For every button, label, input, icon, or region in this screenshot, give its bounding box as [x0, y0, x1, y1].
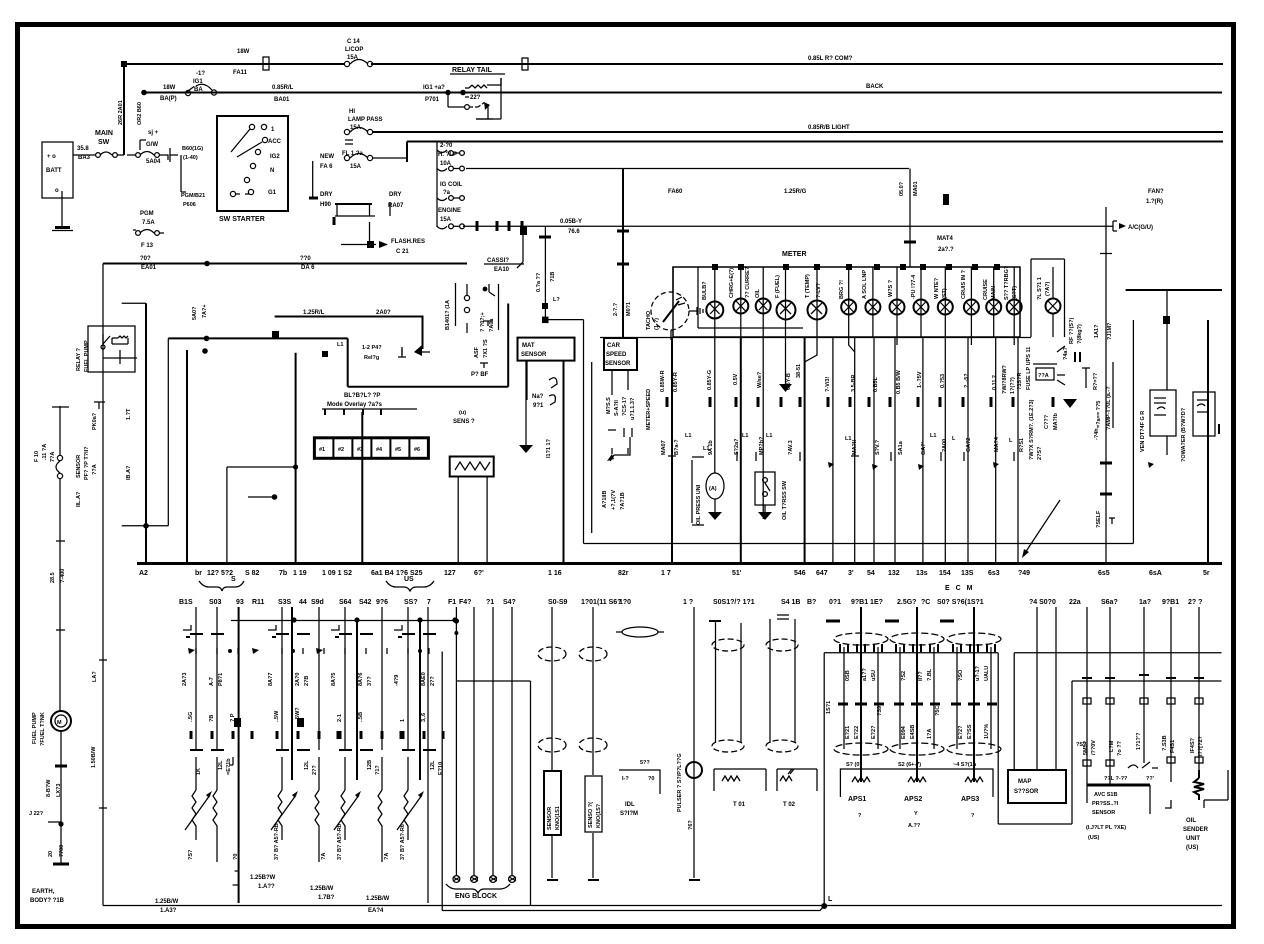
knock sensor 1 — [538, 607, 566, 880]
svg-text:CRUIS IN ?: CRUIS IN ? — [961, 269, 967, 299]
MAF area component — [480, 284, 499, 332]
svg-text:OR2 B60: OR2 B60 — [137, 102, 143, 125]
wire to starter box — [181, 155, 186, 192]
svg-text:M0?1: M0?1 — [626, 302, 632, 316]
svg-text:CA?2: CA?2 — [966, 438, 972, 452]
svg-text:FUSE LP UPS 11: FUSE LP UPS 11 — [1026, 347, 1032, 390]
svg-text:5r: 5r — [1203, 570, 1210, 577]
eng block ground wires — [474, 607, 512, 875]
svg-text:(ST): (ST) — [942, 288, 948, 299]
fusible link main sw — [73, 154, 95, 156]
svg-text:CRUISE: CRUISE — [983, 279, 989, 300]
injector resistor T02 — [766, 615, 817, 808]
svg-text:BA: BA — [194, 87, 203, 93]
svg-text:W?S ?: W?S ? — [888, 279, 894, 297]
svg-text:Mode Overlay ?a?s: Mode Overlay ?a?s — [327, 402, 383, 408]
ignition switch SW STARTER box — [217, 116, 288, 223]
svg-text:?..-5?: ?..-5? — [964, 373, 970, 388]
svg-text:LA?: LA? — [92, 671, 98, 682]
fuse HI LAMP PASS — [342, 109, 407, 170]
svg-text:N: N — [270, 168, 274, 174]
svg-text:Rel?g: Rel?g — [364, 355, 379, 361]
svg-text:132: 132 — [888, 570, 900, 577]
svg-text:ASF: ASF — [474, 346, 480, 358]
wire: line EA01 — [103, 263, 467, 265]
svg-text:o: o — [55, 188, 59, 194]
svg-text:3??: 3?? — [367, 676, 373, 686]
svg-text:SENS ?: SENS ? — [453, 419, 475, 425]
svg-text:?C: ?C — [921, 599, 930, 606]
svg-text:E?21: E?21 — [845, 726, 851, 739]
svg-text:1: 1 — [400, 719, 406, 722]
svg-text:PGM/B21: PGM/B21 — [181, 193, 205, 199]
svg-text:8-B?W: 8-B?W — [46, 779, 52, 797]
svg-text:BRG ?!: BRG ?! — [839, 280, 845, 299]
svg-text:ACC: ACC — [268, 139, 282, 145]
svg-text:1.25R/G: 1.25R/G — [784, 189, 807, 195]
svg-text:12B: 12B — [367, 760, 373, 770]
svg-text:?0?: ?0? — [140, 256, 151, 262]
svg-text:8A?5: 8A?5 — [331, 673, 337, 686]
svg-text:R11: R11 — [252, 599, 265, 606]
svg-text:Y: Y — [914, 811, 918, 817]
svg-text:P701: P701 — [425, 97, 440, 103]
svg-text:44: 44 — [299, 599, 307, 606]
press sensor box — [1086, 785, 1150, 841]
wire pin 647 — [832, 337, 834, 563]
svg-text:BULB?: BULB? — [702, 281, 708, 300]
svg-text:8A?6: 8A?6 — [358, 673, 364, 686]
svg-text:3.5-BR: 3.5-BR — [851, 375, 857, 392]
svg-text:3,.6: 3,.6 — [421, 713, 427, 722]
svg-text:7.5A: 7.5A — [142, 220, 155, 226]
svg-text:?6?: ?6? — [688, 820, 694, 830]
indicator lamps row — [706, 267, 1021, 337]
svg-text:BL?B?L? ?P: BL?B?L? ?P — [344, 393, 380, 399]
svg-text:SPEED: SPEED — [606, 352, 627, 358]
svg-text:18W: 18W — [163, 85, 176, 91]
svg-text:9?6: 9?6 — [376, 599, 388, 606]
svg-text:C???: C??? — [1044, 414, 1050, 429]
lamp PW — [920, 267, 922, 337]
svg-text:C 21: C 21 — [396, 249, 409, 255]
black mark — [943, 194, 949, 205]
svg-text:0.85Y-G: 0.85Y-G — [707, 370, 713, 390]
wire pin 17 — [671, 337, 673, 563]
lamp WASH — [896, 267, 898, 337]
svg-text:(US): (US) — [1088, 835, 1099, 841]
svg-text:UALU: UALU — [984, 666, 990, 681]
fuse on fuel pump wire — [57, 455, 62, 460]
svg-text:7A?+: 7A?+ — [202, 304, 208, 318]
svg-text:1U?%: 1U?% — [984, 724, 990, 739]
svg-text:?0: ?0 — [233, 854, 239, 860]
svg-text:F4?: F4? — [459, 599, 471, 606]
svg-text:0.?53: 0.?53 — [940, 374, 946, 388]
svg-text:T 01: T 01 — [733, 802, 746, 808]
wire buzzer riser — [507, 304, 509, 387]
svg-text:S0-S9: S0-S9 — [548, 599, 568, 606]
wire pin 546 — [804, 337, 806, 563]
wire pin 154 — [944, 337, 946, 563]
svg-text:0.85L R? COM?: 0.85L R? COM? — [808, 56, 853, 62]
svg-text:2a?.?: 2a?.? — [938, 247, 954, 253]
junction node top — [121, 61, 127, 67]
wire oil temp — [762, 337, 764, 519]
svg-text:2-?.?: 2-?.? — [613, 302, 619, 316]
svg-text:L1: L1 — [766, 433, 772, 439]
svg-text:E C M: E C M — [945, 585, 974, 592]
connector tick row y402 — [667, 397, 1053, 407]
svg-text:J 22?: J 22? — [29, 811, 44, 817]
fuel pump wire top — [59, 406, 61, 455]
battery BATT — [42, 142, 73, 198]
wire pin b7 vertical — [186, 350, 188, 563]
svg-text:M?S.S: M?S.S — [606, 397, 612, 414]
svg-text:EA?4: EA?4 — [368, 908, 384, 914]
svg-text:?CS-1?: ?CS-1? — [622, 396, 628, 416]
gauge FUEL — [785, 267, 787, 337]
svg-text:A?1llB: A?1llB — [602, 491, 608, 508]
wire: line 3 lights — [372, 131, 1223, 133]
wire: feed down to meter — [909, 169, 911, 268]
wire from 583 corner — [583, 320, 585, 544]
svg-text:??L ?-??: ??L ?-?? — [1104, 776, 1128, 782]
svg-text:RELAY TAIL: RELAY TAIL — [452, 67, 493, 74]
svg-text:#4: #4 — [376, 447, 383, 453]
svg-text:-?4h: -?4h — [1094, 428, 1100, 440]
svg-text:=?a== ??5: =?a== ??5 — [1096, 401, 1102, 428]
svg-text:MA?4: MA?4 — [994, 436, 1000, 452]
svg-text:15A: 15A — [440, 217, 452, 223]
svg-text:TACHO: TACHO — [646, 310, 652, 330]
wire with ground — [525, 361, 527, 445]
svg-text:6?': 6?' — [474, 570, 484, 577]
svg-text:B60(1G): B60(1G) — [182, 146, 203, 152]
small connector tick row y456 — [668, 452, 1014, 461]
svg-text:127: 127 — [444, 570, 456, 577]
svg-text:KNO(1S1: KNO(1S1 — [555, 806, 561, 830]
svg-text:B1401? (1A: B1401? (1A — [445, 300, 451, 330]
svg-text:S4 1B: S4 1B — [781, 599, 800, 606]
svg-text:2??: 2?? — [430, 676, 436, 686]
svg-text:0.B5L: 0.B5L — [873, 376, 879, 392]
svg-text:?W/?8RW?: ?W/?8RW? — [1002, 364, 1008, 394]
junction earth stub — [58, 821, 63, 826]
svg-text:MA07: MA07 — [661, 440, 667, 455]
svg-text:APS2: APS2 — [904, 796, 922, 803]
wire: line 6 0.05B-Y — [463, 225, 1113, 227]
fuse C-14 on line 1 — [344, 39, 372, 67]
svg-text:METER+SPEED: METER+SPEED — [646, 389, 652, 430]
heater box — [1181, 392, 1219, 462]
purge solenoid — [445, 283, 470, 333]
svg-text:BATT: BATT — [46, 168, 62, 174]
connector A/C at end of line6 — [1113, 221, 1117, 231]
svg-text:0.85R/L: 0.85R/L — [272, 85, 294, 91]
svg-text:12L: 12L — [304, 760, 310, 770]
feeder line over coils — [231, 620, 456, 622]
svg-text:FLASH.RES: FLASH.RES — [391, 239, 425, 245]
svg-text:1a?: 1a? — [1139, 599, 1151, 606]
IDL switch — [619, 760, 660, 817]
wire x623 down to car speed — [622, 169, 624, 339]
svg-text:S: S — [231, 576, 236, 583]
svg-text:S2 (6+-7): S2 (6+-7) — [898, 762, 921, 768]
svg-text:T (TEMP): T (TEMP) — [805, 274, 811, 298]
buzzer — [450, 410, 494, 563]
gauge TEMP — [816, 267, 818, 337]
svg-text:?OWA?ER (B?W?D?: ?OWA?ER (B?W?D? — [1181, 407, 1187, 462]
svg-text:?W?X S?RM?. (1E.2?3): ?W?X S?RM?. (1E.2?3) — [1029, 399, 1035, 460]
svg-text:?1?: ?1? — [375, 765, 381, 775]
svg-text:12L: 12L — [430, 760, 436, 770]
svg-text:Na?: Na? — [532, 394, 544, 400]
wire mode drop — [167, 338, 169, 525]
tick marks on fuel wire — [56, 541, 65, 630]
svg-text:7b: 7b — [279, 570, 287, 577]
svg-text:6a1 B4: 6a1 B4 — [371, 570, 394, 577]
A boxes row — [314, 438, 428, 459]
svg-text:MAP: MAP — [1018, 779, 1031, 785]
svg-text:1.A3?: 1.A3? — [160, 908, 177, 914]
svg-text:12L: 12L — [218, 760, 224, 770]
svg-text:PF? ?P T?ll?: PF? ?P T?ll? — [84, 446, 90, 480]
svg-text:BA3: BA3 — [78, 155, 91, 161]
svg-text:S03: S03 — [209, 599, 222, 606]
svg-text:MA?ll: MA?ll — [852, 440, 858, 455]
lamp CRUISE MAIN — [993, 267, 995, 337]
svg-text:?.S3B: ?.S3B — [1162, 735, 1168, 751]
wire: top feed line 1 — [124, 63, 1223, 65]
svg-text:1 19: 1 19 — [293, 570, 307, 577]
svg-text:154: 154 — [939, 570, 951, 577]
svg-text:FAN?: FAN? — [1148, 189, 1164, 195]
svg-text:OIL: OIL — [1186, 818, 1196, 824]
svg-text:54: 54 — [867, 570, 875, 577]
svg-text:0.05B-Y: 0.05B-Y — [560, 219, 582, 225]
svg-text:L1: L1 — [685, 433, 691, 439]
svg-text:0.5V: 0.5V — [733, 373, 739, 385]
svg-text:ENGINE: ENGINE — [438, 208, 461, 214]
svg-text:S?I?M: S?I?M — [620, 811, 638, 817]
svg-text:HI: HI — [349, 109, 355, 115]
svg-text:SENSOR: SENSOR — [76, 455, 82, 478]
svg-text:?4a?: ?4a? — [1063, 347, 1069, 360]
svg-text:FA60: FA60 — [668, 189, 683, 195]
svg-text:2? ?: 2? ? — [1188, 599, 1202, 606]
svg-text:F1: F1 — [448, 599, 456, 606]
ECM pin labels row2 — [179, 599, 1202, 606]
svg-text:6sA: 6sA — [1149, 570, 1162, 577]
fusebox stack HEAD/IGCOIL/ENGINE — [437, 142, 464, 229]
bold tick on fuel wire — [55, 765, 67, 768]
svg-text:?S?: ?S? — [1076, 742, 1087, 748]
svg-text:?S2: ?S2 — [901, 671, 907, 681]
side box OIL SHIFT lamp — [1031, 259, 1083, 344]
svg-text:0SB: 0SB — [845, 670, 851, 681]
svg-text:2.5G?: 2.5G? — [897, 599, 916, 606]
right wires from meter area down — [1132, 320, 1134, 544]
svg-text:0.85W-R: 0.85W-R — [660, 370, 666, 392]
svg-text:1?0: 1?0 — [619, 599, 631, 606]
svg-text:S-A?ll: S-A?ll — [614, 400, 620, 416]
svg-text:?J1M?: ?J1M? — [1107, 322, 1113, 340]
svg-text:6s3: 6s3 — [988, 570, 1000, 577]
svg-text:CHRG+E(?): CHRG+E(?) — [729, 268, 735, 298]
svg-text:?.BL: ?.BL — [927, 668, 933, 681]
meter box — [673, 267, 1020, 337]
svg-text:C 14: C 14 — [347, 39, 360, 45]
svg-text:BODY? ?1B: BODY? ?1B — [30, 898, 65, 904]
svg-text:2?B: 2?B — [304, 676, 310, 686]
svg-text:SENDER: SENDER — [1183, 827, 1209, 833]
svg-text:A-7: A-7 — [209, 677, 215, 686]
svg-text:S?? T?RBG?: S?? T?RBG? — [1004, 265, 1010, 300]
wire label band upper — [660, 364, 1023, 394]
svg-text:S??SOR: S??SOR — [1014, 789, 1039, 795]
svg-text:E?2?: E?2? — [871, 725, 877, 739]
svg-text:(US): (US) — [1186, 845, 1198, 851]
lamp OIL — [762, 267, 764, 337]
svg-text:?(8kg?): ?(8kg?) — [1077, 324, 1083, 344]
svg-text:F (FUEL): F (FUEL) — [775, 275, 781, 298]
svg-text:8A?7: 8A?7 — [268, 673, 274, 686]
wire 563 MAT right — [563, 360, 565, 563]
svg-text:S9d: S9d — [311, 599, 324, 606]
top hooks — [183, 625, 402, 630]
svg-text:LX?3: LX?3 — [56, 784, 62, 797]
svg-text:?4 S0?0: ?4 S0?0 — [1029, 599, 1056, 606]
wire: bottom second line — [442, 906, 824, 911]
svg-text:sj +: sj + — [148, 130, 159, 136]
svg-text:S6a?: S6a? — [1101, 599, 1118, 606]
svg-text:AVC S1B: AVC S1B — [1094, 792, 1117, 798]
svg-text:38-51: 38-51 — [796, 364, 802, 378]
svg-text:MP?b?: MP?b? — [759, 436, 765, 455]
svg-text:IDL: IDL — [625, 802, 635, 808]
svg-text:BA(P): BA(P) — [160, 96, 177, 102]
ground battery — [55, 226, 70, 229]
svg-text:a1??: a1?? — [862, 668, 868, 681]
svg-text:7: 7 — [427, 599, 431, 606]
wire: long left vertical to bottom — [102, 264, 104, 906]
svg-text:1.?(R): 1.?(R) — [1146, 199, 1163, 205]
svg-text:?SELF: ?SELF — [1096, 510, 1102, 528]
bar contact — [335, 203, 372, 205]
svg-text:B?: B? — [807, 599, 816, 606]
tachometer gauge — [646, 267, 703, 340]
svg-text:1K: 1K — [196, 768, 202, 775]
svg-text:uSU: uSU — [871, 670, 877, 681]
svg-text:?A: ?A — [384, 853, 390, 860]
svg-text:T 02: T 02 — [783, 802, 796, 808]
svg-text:/??0V: /??0V — [1091, 740, 1097, 755]
svg-text:S3S: S3S — [278, 599, 292, 606]
svg-text:B?a-?: B?a-? — [674, 439, 680, 455]
svg-text:?S?: ?S? — [188, 849, 194, 860]
svg-text:E4SB: E4SB — [910, 725, 916, 739]
wire pin 13? — [967, 337, 969, 563]
svg-text:(I.J?LT PL ?XE): (I.J?LT PL ?XE) — [1086, 825, 1126, 831]
svg-text:S? (0): S? (0) — [846, 762, 861, 768]
svg-text:?-LV?: ?-LV? — [816, 282, 822, 298]
svg-text:A SOL LNP: A SOL LNP — [862, 270, 868, 299]
svg-text:(S?T): (S?T) — [1012, 286, 1018, 300]
svg-text:9?B1: 9?B1 — [1162, 599, 1179, 606]
svg-text:1A1?: 1A1? — [1094, 324, 1100, 338]
svg-text:PULSER ? S?/P?L??G: PULSER ? S?/P?L??G — [677, 753, 683, 812]
svg-text:CASSI?: CASSI? — [487, 258, 509, 264]
svg-text:IG2: IG2 — [270, 154, 280, 160]
svg-text:2-1: 2-1 — [337, 714, 343, 722]
svg-text:3': 3' — [848, 570, 854, 577]
svg-text:S4?: S4? — [503, 599, 516, 606]
brace S group — [199, 581, 244, 591]
svg-text:+?,1(?V: +?,1(?V — [611, 490, 617, 510]
svg-text:ENG BLOCK: ENG BLOCK — [455, 893, 497, 900]
svg-text:2A0?: 2A0? — [376, 310, 391, 316]
svg-text:3? B? A5?-RB: 3? B? A5?-RB — [274, 823, 280, 860]
svg-text:1.25B/W: 1.25B/W — [155, 899, 179, 905]
svg-text:(1-40): (1-40) — [183, 155, 198, 161]
svg-text:1S?1: 1S?1 — [826, 701, 832, 714]
svg-text:?A: ?A — [321, 853, 327, 860]
svg-text:L1: L1 — [845, 436, 851, 442]
chassis ground EA10 — [517, 234, 523, 268]
svg-text:??A: ??A — [92, 464, 98, 475]
svg-text:LAMP PASS: LAMP PASS — [348, 117, 382, 123]
svg-text:?SO: ?SO — [958, 669, 964, 681]
lamp BULB — [714, 267, 716, 337]
flasher arrow — [341, 222, 376, 245]
svg-text:SW: SW — [98, 139, 110, 146]
svg-text:?a: ?a — [443, 190, 451, 196]
pulser — [677, 607, 702, 880]
svg-text:SENSO ?(: SENSO ?( — [588, 802, 594, 828]
svg-text:82r: 82r — [618, 570, 629, 577]
svg-text:0.?a ??: 0.?a ?? — [536, 272, 542, 292]
svg-text:F4S1: F4S1 — [1170, 740, 1176, 753]
svg-text:IG COIL: IG COIL — [440, 182, 463, 188]
svg-text:?B: ?B — [209, 715, 215, 722]
car speed sensor box — [592, 338, 652, 533]
svg-text:E?SS: E?SS — [967, 724, 973, 739]
svg-text:1.25B?W: 1.25B?W — [250, 875, 276, 881]
svg-text:P8?1: P8?1 — [218, 673, 224, 686]
svg-text:SENSOR: SENSOR — [605, 361, 631, 367]
svg-text:PK0a?: PK0a? — [92, 412, 98, 430]
wire: line 4 main — [407, 142, 1223, 163]
svg-text:W NTE?: W NTE? — [934, 277, 940, 299]
svg-text:EA01: EA01 — [141, 265, 157, 271]
svg-text:?? CURRE?: ?? CURRE? — [745, 266, 751, 298]
brace US group — [386, 581, 434, 591]
svg-text:W/se?: W/se? — [757, 371, 763, 388]
svg-text:76.6: 76.6 — [568, 229, 580, 235]
svg-text:?X1 ?S: ?X1 ?S — [483, 339, 489, 358]
mode overlay line — [168, 337, 347, 339]
label FUSE LP UPS — [1026, 346, 1090, 430]
lamp name labels vertical — [702, 265, 1018, 300]
svg-text:MAIN: MAIN — [95, 130, 113, 137]
svg-text:FA11: FA11 — [233, 70, 248, 76]
svg-text:647: 647 — [816, 570, 828, 577]
wire left vertical A2 — [145, 303, 147, 563]
svg-text:L?M: L?M — [1109, 740, 1115, 752]
svg-text:NEW: NEW — [320, 154, 334, 160]
svg-text:DRY: DRY — [389, 192, 401, 198]
